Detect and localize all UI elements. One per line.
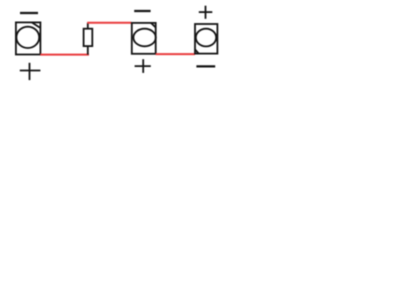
- cell B1 positive terminal label: [20, 63, 41, 80]
- cell B2: [132, 23, 156, 54]
- cell B1 negative terminal label: [20, 12, 38, 14]
- cell B2 negative terminal label: [134, 10, 150, 12]
- resistor R1 top pin lead: [87, 23, 89, 29]
- wire W1 (B1 positive to resistor R1 bottom): [40, 54, 89, 56]
- resistor R1 bottom pin lead: [87, 46, 89, 55]
- cell B3 negative terminal label: [196, 65, 215, 67]
- cell B2 positive terminal label: [135, 59, 151, 73]
- wire W2 (resistor R1 top to cell B2 negative side): [87, 22, 131, 24]
- cell B3 (rotated 180deg): [195, 24, 217, 54]
- cell B1: [16, 22, 41, 54]
- resistor R1: [84, 23, 93, 55]
- cell B3 positive terminal label: [199, 6, 213, 19]
- wire W3 (cell B2 positive to cell B3 negative): [156, 53, 195, 55]
